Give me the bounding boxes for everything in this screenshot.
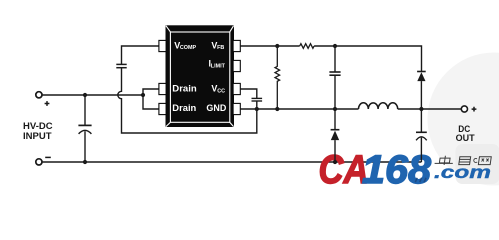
svg-text:FB: FB (217, 45, 224, 51)
watermark disc (428, 53, 499, 186)
diode freewheel (331, 109, 340, 140)
node feedback divider top (275, 44, 279, 48)
pin Drain upper (159, 83, 166, 94)
wire drain bracket (143, 89, 159, 109)
terminal output plus (461, 106, 467, 112)
capacitor output electrolytic (416, 109, 427, 140)
svg-text:168: 168 (362, 148, 431, 192)
terminal input minus (36, 159, 42, 165)
node mid cap gnd (333, 107, 337, 111)
label HV-DC INPUT (23, 121, 53, 141)
IC U1 body (166, 25, 235, 127)
wire plus input rail (42, 94, 143, 96)
svg-text:Drain: Drain (172, 84, 197, 95)
wire VCOMP pin to comp cap (122, 46, 159, 64)
pin VFB (233, 40, 240, 51)
node vcc cap gnd (255, 107, 259, 111)
wire minus bottom rail (42, 161, 421, 163)
pin Drain lower (159, 103, 166, 114)
node divider resistor gnd (275, 107, 279, 111)
diode output rectifier (417, 72, 426, 110)
node mid cap top (333, 44, 337, 48)
logo ticks (415, 178, 426, 182)
inductor output (359, 103, 398, 109)
wire comp cap to gnd with crossover hop (118, 68, 257, 133)
watermark panel (456, 144, 499, 184)
svg-text:.com: .com (434, 162, 491, 182)
node drain rail junction (141, 93, 145, 97)
label pin VCOMP (174, 40, 196, 51)
wire output cap lower lead (420, 138, 422, 162)
svg-text:Drain: Drain (172, 103, 196, 114)
wire VCC pin to vcc cap (240, 89, 256, 98)
svg-text:CA: CA (319, 148, 369, 192)
wire freewheel diode anode lead (334, 140, 336, 162)
svg-text:COMP: COMP (180, 45, 197, 51)
plus sign output (472, 107, 477, 112)
wire VFB pin to divider node (240, 45, 299, 47)
svg-text:GND: GND (206, 103, 226, 114)
label DC OUT (456, 124, 476, 143)
logo curl (474, 158, 477, 162)
pin ILIMIT (233, 60, 240, 71)
terminal input plus (36, 92, 42, 98)
pin VCC (233, 83, 240, 94)
svg-text:INPUT: INPUT (23, 131, 52, 141)
svg-text:HV-DC: HV-DC (23, 121, 53, 131)
capacitor input electrolytic (78, 95, 91, 162)
svg-text:LIMIT: LIMIT (211, 64, 226, 70)
capacitor mid (329, 46, 340, 109)
minus sign input (45, 156, 51, 158)
node input cap bottom (83, 160, 87, 164)
plus sign input (45, 101, 50, 106)
logo char zhong (439, 156, 450, 165)
svg-text:CC: CC (217, 88, 225, 94)
node output diode anode (419, 107, 423, 111)
node input cap top (83, 93, 87, 97)
label pin ILIMIT (209, 59, 226, 70)
wire GND rail (240, 108, 461, 110)
capacitor comp (116, 64, 126, 67)
pin VCOMP (159, 40, 166, 51)
resistor feedback lower vertical (275, 46, 280, 109)
label pin VCC (211, 83, 225, 94)
svg-text:OUT: OUT (456, 133, 476, 143)
logo char zi (459, 157, 471, 165)
resistor feedback series horizontal (300, 44, 314, 49)
pin GND (233, 103, 240, 114)
logo zhongzi dash (435, 162, 453, 164)
node freewheel anode rail (333, 160, 337, 164)
logo char wang (478, 157, 491, 165)
label pin VFB (211, 40, 224, 51)
wire top feedback to output diode (314, 46, 421, 72)
capacitor VCC bypass (252, 98, 263, 109)
